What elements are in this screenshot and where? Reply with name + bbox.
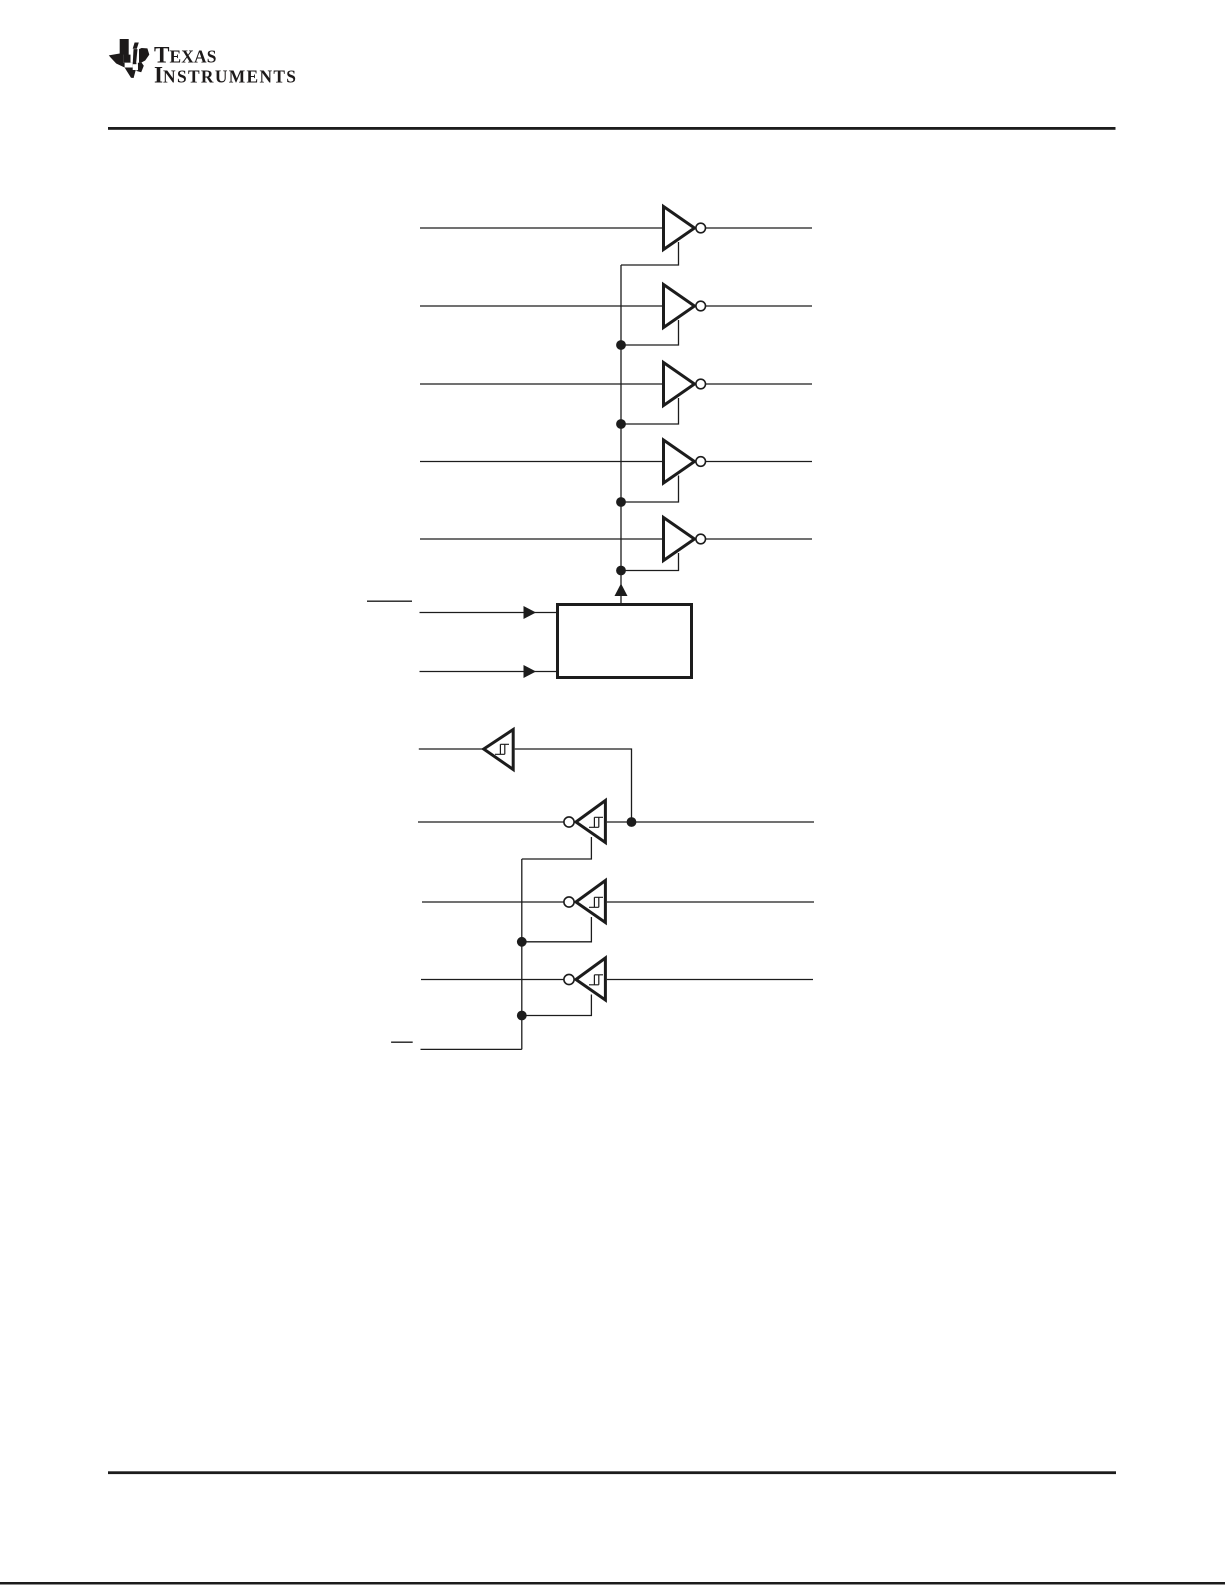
svg-text:TEXAS: TEXAS: [154, 42, 217, 68]
svg-text:INSTRUMENTS: INSTRUMENTS: [154, 62, 297, 88]
